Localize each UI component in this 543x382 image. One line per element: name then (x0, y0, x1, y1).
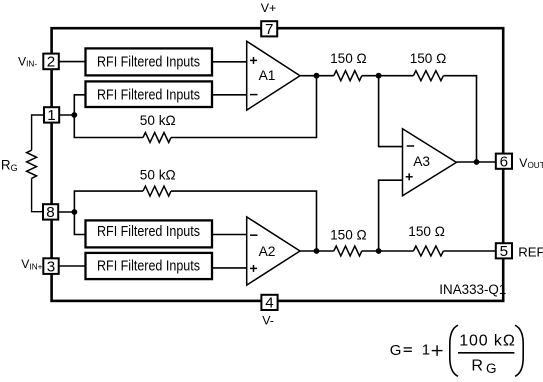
op-amp A1 (247, 41, 300, 110)
wire RFI filter 4 to A2 noninverting input (212, 267, 247, 269)
svg-text:5: 5 (500, 243, 508, 260)
svg-text:RFI Filtered Inputs: RFI Filtered Inputs (97, 55, 200, 71)
svg-text:V-: V- (262, 314, 274, 328)
wire pin1 node down to 50k feedback (74, 115, 143, 138)
resistor R 150 lower-left zigzag (334, 246, 362, 256)
wire pin1 node to RFI filter 2 input (59, 95, 86, 115)
svg-text:1: 1 (47, 107, 55, 124)
wire A1 output row (300, 75, 334, 77)
pin 7 (261, 21, 277, 38)
wire mid node up to A3 noninverting input (379, 180, 403, 251)
resistor R 150 upper-left zigzag (334, 71, 362, 81)
RFI filter block 4 (86, 253, 213, 279)
svg-text:150 Ω: 150 Ω (408, 224, 445, 239)
wire mid node down to A3 inverting input (379, 76, 403, 147)
gain equation (390, 325, 523, 376)
svg-text:RFI Filtered Inputs: RFI Filtered Inputs (97, 88, 200, 104)
wire upper feedback to A3 output node (443, 76, 476, 162)
svg-text:150 Ω: 150 Ω (330, 228, 367, 243)
pin 5 (496, 243, 512, 260)
resistor R 50k upper zigzag (143, 133, 171, 143)
svg-text:150 Ω: 150 Ω (410, 51, 447, 66)
wire RFI filter 3 to A2 inverting input (212, 234, 247, 236)
svg-text:G: G (390, 342, 402, 359)
svg-text:A3: A3 (413, 154, 430, 169)
wire pin2 to RFI filter 1 (59, 61, 86, 63)
junction A1 output (314, 73, 320, 79)
RFI filter block 2 (86, 81, 213, 107)
svg-text:150 Ω: 150 Ω (330, 51, 367, 66)
junction A3 noninverting node (376, 248, 382, 254)
wire lower 150 to pin5 REF (443, 250, 495, 252)
svg-text:RFI Filtered Inputs: RFI Filtered Inputs (97, 224, 200, 240)
wire RG to pin8 (32, 178, 43, 211)
wire RFI filter 2 to A1 inverting input (212, 94, 247, 96)
svg-text:4: 4 (265, 295, 273, 312)
svg-text:REF: REF (518, 244, 543, 259)
pin 8 (43, 204, 58, 221)
op-amp A2 (247, 217, 300, 285)
svg-text:V+: V+ (261, 1, 277, 15)
svg-text:1: 1 (422, 341, 430, 358)
wire between lower 150 resistors (362, 250, 414, 252)
pin 6 (496, 153, 512, 170)
svg-text:3: 3 (47, 258, 55, 275)
resistor R 150 lower-right zigzag (413, 246, 443, 256)
pin 2 (43, 54, 59, 71)
svg-text:8: 8 (46, 204, 54, 221)
junction A3 inverting node (376, 73, 382, 79)
op-amp A3 (403, 129, 457, 196)
wire RFI filter 1 to A1 noninverting input (212, 61, 247, 63)
svg-text:G: G (486, 361, 497, 376)
svg-text:50 kΩ: 50 kΩ (140, 168, 176, 183)
external gain resistor RG wire (32, 115, 44, 150)
wire pin3 to RFI filter 4 (59, 265, 86, 267)
RFI filter block 1 (86, 48, 213, 75)
pin 4 (261, 295, 277, 312)
pin 3 (43, 258, 58, 275)
resistor R 50k lower zigzag (143, 186, 171, 196)
wire pin8 node up to 50k lower (74, 191, 143, 212)
wire pin8 right to node (58, 211, 74, 213)
wire 50k upper to A1 output node (171, 76, 317, 138)
junction pin1 node (71, 112, 77, 118)
svg-text:7: 7 (265, 21, 273, 38)
RFI filter block 3 (86, 220, 213, 247)
svg-text:A1: A1 (259, 68, 276, 83)
svg-text:100 kΩ: 100 kΩ (459, 332, 516, 349)
junction A3 output (474, 159, 480, 165)
wire pin8 node down to RFI filter 3 input (74, 212, 85, 235)
wire 50k lower to A2 output node (171, 191, 317, 251)
svg-text:50 kΩ: 50 kΩ (140, 113, 176, 128)
resistor R 150 upper-right zigzag (413, 71, 443, 81)
svg-text:R: R (471, 357, 483, 374)
pin 1 (44, 107, 59, 124)
junction A2 output (314, 248, 320, 254)
resistor RG zigzag (27, 150, 37, 178)
svg-text:A2: A2 (259, 244, 276, 259)
wire A3 output to pin6 (456, 161, 495, 163)
svg-text:6: 6 (500, 153, 508, 170)
junction pin8 node (72, 209, 78, 215)
wire A2 output row (300, 250, 334, 252)
wire between upper 150 resistors (362, 75, 414, 77)
IC package boundary (52, 28, 504, 301)
svg-text:INA333-Q1: INA333-Q1 (439, 282, 506, 297)
svg-text:2: 2 (47, 54, 55, 71)
svg-text:RFI Filtered Inputs: RFI Filtered Inputs (97, 258, 200, 274)
